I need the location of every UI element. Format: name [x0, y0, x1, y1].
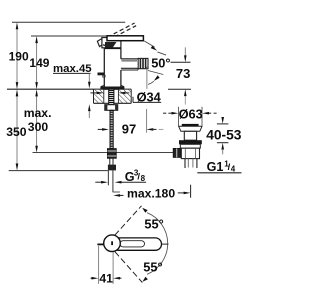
svg-text:8: 8 — [141, 174, 146, 183]
svg-text:97: 97 — [122, 122, 136, 137]
svg-text:max.45: max.45 — [53, 63, 92, 75]
svg-text:max.: max. — [24, 106, 52, 120]
svg-text:55°: 55° — [144, 217, 163, 232]
svg-text:350: 350 — [6, 125, 27, 139]
svg-text:G1: G1 — [207, 160, 224, 174]
svg-text:4: 4 — [231, 165, 236, 174]
svg-text:300: 300 — [28, 120, 49, 134]
svg-text:41: 41 — [99, 272, 113, 286]
svg-text:149: 149 — [29, 56, 49, 70]
svg-text:55°: 55° — [143, 259, 162, 274]
svg-text:73: 73 — [176, 66, 190, 81]
svg-text:50°: 50° — [151, 55, 170, 70]
svg-text:Ø34: Ø34 — [137, 89, 162, 104]
svg-text:max.180: max.180 — [127, 187, 175, 201]
svg-text:40-53: 40-53 — [206, 127, 242, 142]
svg-text:Ø63: Ø63 — [179, 107, 203, 122]
svg-text:190: 190 — [9, 49, 29, 63]
